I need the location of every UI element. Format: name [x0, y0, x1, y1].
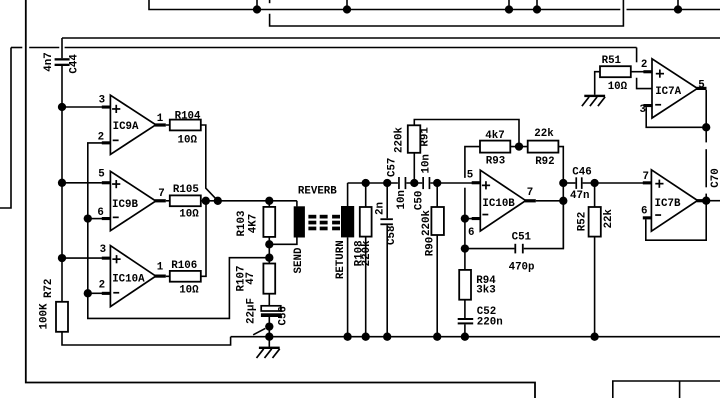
svg-text:R91: R91 — [420, 127, 432, 147]
pin 1 output stub IC9A — [155, 123, 166, 126]
ground symbol at R51 — [582, 95, 605, 106]
wire C52 bottom lead — [464, 324, 466, 336]
wire IC9B pin6 stub — [88, 218, 102, 220]
wire IC7A feedback loop — [646, 90, 706, 127]
wire C56 bottom lead — [268, 317, 270, 347]
wire D segment 3 — [65, 47, 637, 49]
resistor R106 — [170, 271, 201, 282]
node lower right block — [613, 381, 720, 398]
junction left rail IC9A input — [58, 103, 66, 111]
wire top bus A left corner — [149, 0, 620, 10]
node input bracket at left edge — [0, 48, 11, 209]
pin 1 output stub IC10A — [155, 275, 166, 278]
capacitor C46 — [575, 177, 582, 189]
reverb coupling dashed row 2 — [308, 221, 340, 225]
svg-text:5: 5 — [467, 169, 473, 181]
svg-text:C50: C50 — [414, 191, 426, 210]
svg-text:R105: R105 — [173, 184, 199, 196]
junction IC7A feedback node — [702, 123, 710, 131]
resistor R72 — [56, 302, 68, 332]
wire R105 output to summing bus — [166, 200, 170, 202]
svg-text:R104: R104 — [175, 111, 201, 123]
svg-text:4k7: 4k7 — [485, 130, 504, 142]
plus sign IC10A — [112, 255, 120, 263]
svg-text:7: 7 — [527, 187, 533, 199]
resistor R51 — [600, 66, 631, 77]
wire D drop upper segment — [636, 48, 638, 63]
wire C horizontal rail y=38 — [62, 37, 720, 39]
svg-text:10Ω: 10Ω — [178, 134, 198, 146]
wire top bus B left riser upper tick — [269, 0, 271, 3]
op-amp IC7A — [652, 59, 697, 118]
svg-text:4n7: 4n7 — [43, 52, 55, 71]
wire D segment 2 — [29, 47, 59, 49]
junction C51 left — [461, 244, 469, 252]
svg-text:C57: C57 — [386, 158, 398, 177]
svg-text:3: 3 — [99, 94, 105, 106]
minus sign IC10A — [113, 292, 119, 294]
junction on bus A x=509 — [505, 5, 513, 13]
junction left rail IC10A input — [58, 254, 66, 262]
svg-text:2: 2 — [641, 59, 647, 71]
resistor R52 — [589, 183, 601, 337]
svg-text:R52: R52 — [576, 212, 588, 231]
node lower right block divider — [679, 381, 681, 398]
resistor R93 — [480, 141, 510, 153]
plus sign IC7B — [655, 180, 663, 188]
svg-text:R72: R72 — [43, 279, 55, 298]
minus sign IC7B — [655, 214, 661, 216]
resistor R108 — [360, 183, 372, 337]
junction inverting rail IC10A pin 2 — [84, 289, 92, 297]
junction R91 bottom — [410, 179, 418, 187]
plus sign IC9B — [112, 180, 120, 188]
wire C57 to C50 — [406, 182, 422, 184]
pin 7 output stub IC10B — [525, 199, 536, 202]
resistor R91 with top loop — [408, 120, 519, 184]
svg-text:220k: 220k — [421, 210, 433, 236]
svg-text:220n: 220n — [477, 317, 503, 329]
resistor R107 — [263, 264, 275, 294]
wire summing bus to send transducer — [296, 201, 298, 207]
wire top bus A right segment — [627, 9, 720, 11]
svg-text:10Ω: 10Ω — [608, 81, 628, 93]
capacitor C52 — [458, 318, 474, 324]
wire top bus B — [270, 0, 624, 26]
wire send bottom return — [269, 238, 297, 245]
junction C52 bottom — [461, 333, 469, 341]
svg-text:SEND: SEND — [293, 247, 305, 273]
svg-text:5: 5 — [98, 169, 104, 181]
capacitor C58 — [380, 183, 393, 337]
reverb return transducer bar — [341, 206, 354, 237]
svg-text:47: 47 — [245, 272, 257, 285]
junction on bus A x=537 — [533, 5, 541, 13]
junction summing node left — [202, 197, 210, 205]
resistor R105 — [170, 195, 201, 206]
junction R103 top — [265, 197, 273, 205]
svg-text:2n: 2n — [375, 202, 387, 215]
junction IC7B output — [702, 197, 710, 205]
svg-text:10n: 10n — [420, 154, 432, 173]
svg-text:IC7A: IC7A — [655, 86, 681, 98]
svg-text:C70: C70 — [710, 168, 720, 187]
svg-text:220k: 220k — [394, 127, 406, 153]
svg-text:1: 1 — [157, 261, 164, 273]
wire stub to top at x=678 — [677, 0, 679, 10]
plus sign IC7A — [656, 70, 664, 78]
svg-text:100K: 100K — [38, 303, 50, 329]
svg-text:REVERB: REVERB — [298, 185, 337, 197]
wire stub to top at x=509 — [508, 0, 510, 10]
pin 5 stub IC9B — [102, 181, 111, 184]
wire IC7B feedback loop — [646, 202, 706, 240]
wire R94 to C52 — [464, 300, 466, 318]
junction R52 top — [590, 179, 598, 187]
svg-text:6: 6 — [641, 206, 647, 218]
junction R90 bottom — [433, 333, 441, 341]
svg-text:3: 3 — [100, 244, 106, 256]
svg-text:IC9A: IC9A — [113, 121, 139, 133]
junction send return node — [265, 240, 273, 248]
plus sign IC9A — [112, 105, 120, 113]
wire inverting rail x=87.8 — [88, 143, 269, 319]
wire return bottom lead to ground bus — [347, 237, 349, 336]
op-amp IC9B — [110, 171, 155, 230]
svg-text:R103: R103 — [236, 211, 248, 237]
svg-text:10n: 10n — [396, 190, 408, 209]
pin 3 stub IC7A — [643, 104, 652, 107]
capacitor C57 — [398, 177, 406, 189]
wire IC10A pin2 stub — [88, 292, 103, 294]
junction C46 tap — [559, 179, 567, 187]
resistor R92 — [528, 141, 559, 153]
svg-text:7: 7 — [643, 171, 649, 183]
pin 6 stub IC9B — [102, 217, 111, 220]
resistor R90 — [431, 183, 444, 337]
junction R108 top — [362, 179, 370, 187]
svg-text:IC10A: IC10A — [112, 273, 145, 285]
svg-text:6: 6 — [468, 227, 474, 239]
wire IC10B pin6 stub — [465, 218, 474, 220]
svg-text:R106: R106 — [171, 260, 197, 272]
wire R103 top lead — [268, 201, 270, 207]
junction return ground — [343, 333, 351, 341]
wire broken vertical link segment 2 — [705, 149, 707, 187]
op-amp IC10A — [110, 246, 155, 307]
minus sign IC9A — [113, 140, 119, 142]
wire R107 bottom lead — [268, 294, 270, 306]
wire R51 left to ground — [595, 72, 600, 95]
wire bottom ground bus — [231, 336, 720, 338]
pin 2 stub IC7A — [643, 70, 652, 73]
resistor R94 — [459, 270, 471, 300]
wire inverting rail IC10B — [464, 188, 466, 270]
svg-text:22µF: 22µF — [245, 298, 257, 324]
wire C46 to IC7B input — [583, 182, 644, 184]
svg-text:C46: C46 — [572, 166, 591, 178]
wire stub to top at x=257 — [256, 0, 258, 10]
junction C58 top — [383, 179, 391, 187]
wire non-inverting feed IC9B — [62, 182, 102, 184]
wire R103 bottom to R107 — [268, 237, 270, 264]
ground symbol below bus — [257, 347, 280, 358]
frame border left and bottom — [26, 0, 535, 398]
junction R52 bottom — [590, 333, 598, 341]
pin 5 output stub IC7A — [697, 87, 707, 90]
pin 2 stub IC10A — [102, 292, 111, 295]
minus sign IC10B — [482, 214, 488, 216]
wire output to C46 — [563, 182, 575, 184]
capacitor C50 — [422, 177, 430, 189]
svg-text:C44: C44 — [69, 54, 81, 74]
svg-text:10Ω: 10Ω — [179, 209, 199, 221]
junction ground node on bus — [265, 333, 273, 341]
pin 7 output stub IC9B — [155, 199, 166, 202]
wire left rail x=62 from C44 down to R72 — [61, 66, 63, 302]
wire return top lead — [347, 183, 349, 206]
svg-text:22k: 22k — [603, 208, 615, 228]
svg-text:C58: C58 — [386, 225, 398, 244]
reverb coupling dashed row 3 — [308, 227, 340, 231]
wire R72 bottom lead to bottom bus — [62, 332, 231, 345]
wire non-inverting feed IC10A — [62, 257, 103, 259]
resistor R104 — [170, 120, 201, 131]
reverb coupling dashed row 1 — [308, 215, 340, 219]
wire R93 left corner — [465, 147, 480, 178]
wire broken vertical link segment 1 — [705, 127, 707, 142]
svg-text:47n: 47n — [570, 190, 589, 202]
minus sign IC9B — [113, 217, 119, 219]
reverb send transducer bar — [294, 206, 305, 237]
resistor R103 — [263, 207, 275, 237]
wire D drop lower segment into IC7A — [637, 78, 652, 89]
wire R93 to R92 — [510, 146, 527, 148]
svg-text:C51: C51 — [512, 231, 532, 243]
svg-text:R51: R51 — [602, 55, 622, 67]
pin 7 stub IC7B — [643, 181, 652, 184]
op-amp IC9A — [110, 95, 155, 154]
pin 3 stub IC10A — [102, 257, 111, 260]
pin 3 stub IC9A — [102, 106, 111, 109]
wire return node to C57 — [348, 182, 398, 184]
wire stub to top at x=347 — [346, 0, 348, 10]
wire R51 right to pin2 — [631, 71, 644, 73]
pin 6 stub IC7B — [643, 216, 652, 219]
svg-text:IC7B: IC7B — [655, 198, 681, 210]
pin 1 output stub IC7B — [697, 199, 707, 202]
plus sign IC10B — [482, 181, 490, 189]
wire IC7B output to edge — [706, 200, 720, 202]
wire C51 left — [465, 248, 515, 250]
wire C44 top lead — [61, 38, 63, 58]
junction IC10B pin6 — [461, 214, 469, 222]
svg-text:22k: 22k — [534, 128, 554, 140]
junction R90 top — [433, 179, 441, 187]
svg-text:470p: 470p — [509, 261, 535, 273]
junction on bus A x=257 — [253, 5, 261, 13]
svg-text:R90: R90 — [424, 237, 436, 256]
pin 5 stub IC10B — [472, 181, 481, 184]
wire IC10B output — [536, 200, 564, 202]
junction C58 bottom — [383, 333, 391, 341]
junction R108 bottom — [362, 333, 370, 341]
wire C50 to IC10B pin5 — [430, 182, 473, 184]
junction R93 R92 node — [515, 142, 523, 150]
wire stub to top at x=537 — [536, 0, 538, 10]
wire R92 right corner down — [558, 147, 563, 249]
wire R106 output up to summing node — [166, 201, 206, 276]
op-amp IC7B — [651, 170, 697, 231]
pin 6 stub IC10B — [472, 217, 481, 220]
capacitor C56 electrolytic — [261, 306, 281, 317]
svg-text:R93: R93 — [486, 155, 505, 167]
wire D horizontal rail y=47.5 segment 1 — [11, 47, 22, 49]
svg-text:R92: R92 — [535, 156, 554, 168]
junction left rail IC9B input — [58, 179, 66, 187]
junction summing node right — [214, 197, 222, 205]
junction feedback tap node — [265, 254, 273, 262]
junction IC10B output node — [559, 197, 567, 205]
svg-text:C56: C56 — [278, 306, 290, 325]
svg-text:7: 7 — [158, 188, 164, 200]
minus sign IC7A — [655, 104, 661, 106]
wire C51 right up to output — [524, 201, 564, 249]
svg-text:10Ω: 10Ω — [179, 284, 199, 296]
svg-text:RETURN: RETURN — [335, 240, 347, 279]
svg-text:IC9B: IC9B — [112, 199, 138, 211]
wire R104 output to summing node — [166, 125, 218, 201]
svg-text:2: 2 — [99, 279, 105, 291]
wire angled tap to bus — [253, 328, 265, 334]
svg-text:1: 1 — [157, 113, 164, 125]
svg-text:IC10B: IC10B — [482, 198, 515, 210]
capacitor C44 — [55, 58, 70, 66]
svg-text:4K7: 4K7 — [247, 214, 259, 233]
wire broken vertical link segment 3 — [705, 194, 707, 201]
op-amp IC10B — [480, 170, 525, 231]
junction inverting rail IC9B pin 6 — [84, 214, 92, 222]
pin 2 stub IC9A — [102, 141, 111, 144]
svg-text:3k3: 3k3 — [476, 285, 495, 297]
junction C56 bottom — [265, 322, 273, 330]
svg-text:220k: 220k — [361, 240, 373, 266]
wire non-inverting feed IC9A — [62, 106, 102, 108]
junction on bus A x=678 — [674, 5, 682, 13]
capacitor C51 — [514, 244, 523, 254]
junction on bus A x=347 — [343, 5, 351, 13]
